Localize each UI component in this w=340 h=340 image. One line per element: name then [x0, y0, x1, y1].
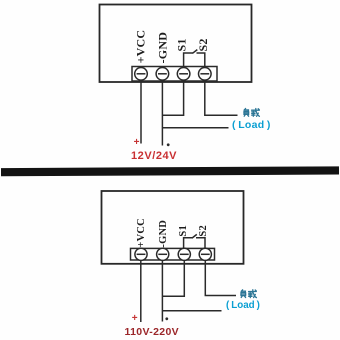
svg-text:S1: S1: [178, 225, 189, 237]
svg-text:-GND: -GND: [156, 32, 170, 64]
svg-text:S2: S2: [198, 225, 209, 237]
svg-text:+: +: [132, 313, 138, 324]
svg-text:( Load ): ( Load ): [226, 300, 260, 311]
svg-text:S1: S1: [175, 38, 189, 51]
svg-text:+: +: [134, 137, 140, 148]
svg-text:S2: S2: [196, 38, 210, 51]
svg-text:12V/24V: 12V/24V: [131, 150, 177, 162]
svg-text:-GND: -GND: [158, 220, 169, 248]
svg-text:110V-220V: 110V-220V: [125, 326, 180, 338]
svg-text:+VCC: +VCC: [136, 218, 147, 248]
svg-text:( Load ): ( Load ): [232, 119, 271, 131]
svg-text:+VCC: +VCC: [134, 30, 148, 64]
